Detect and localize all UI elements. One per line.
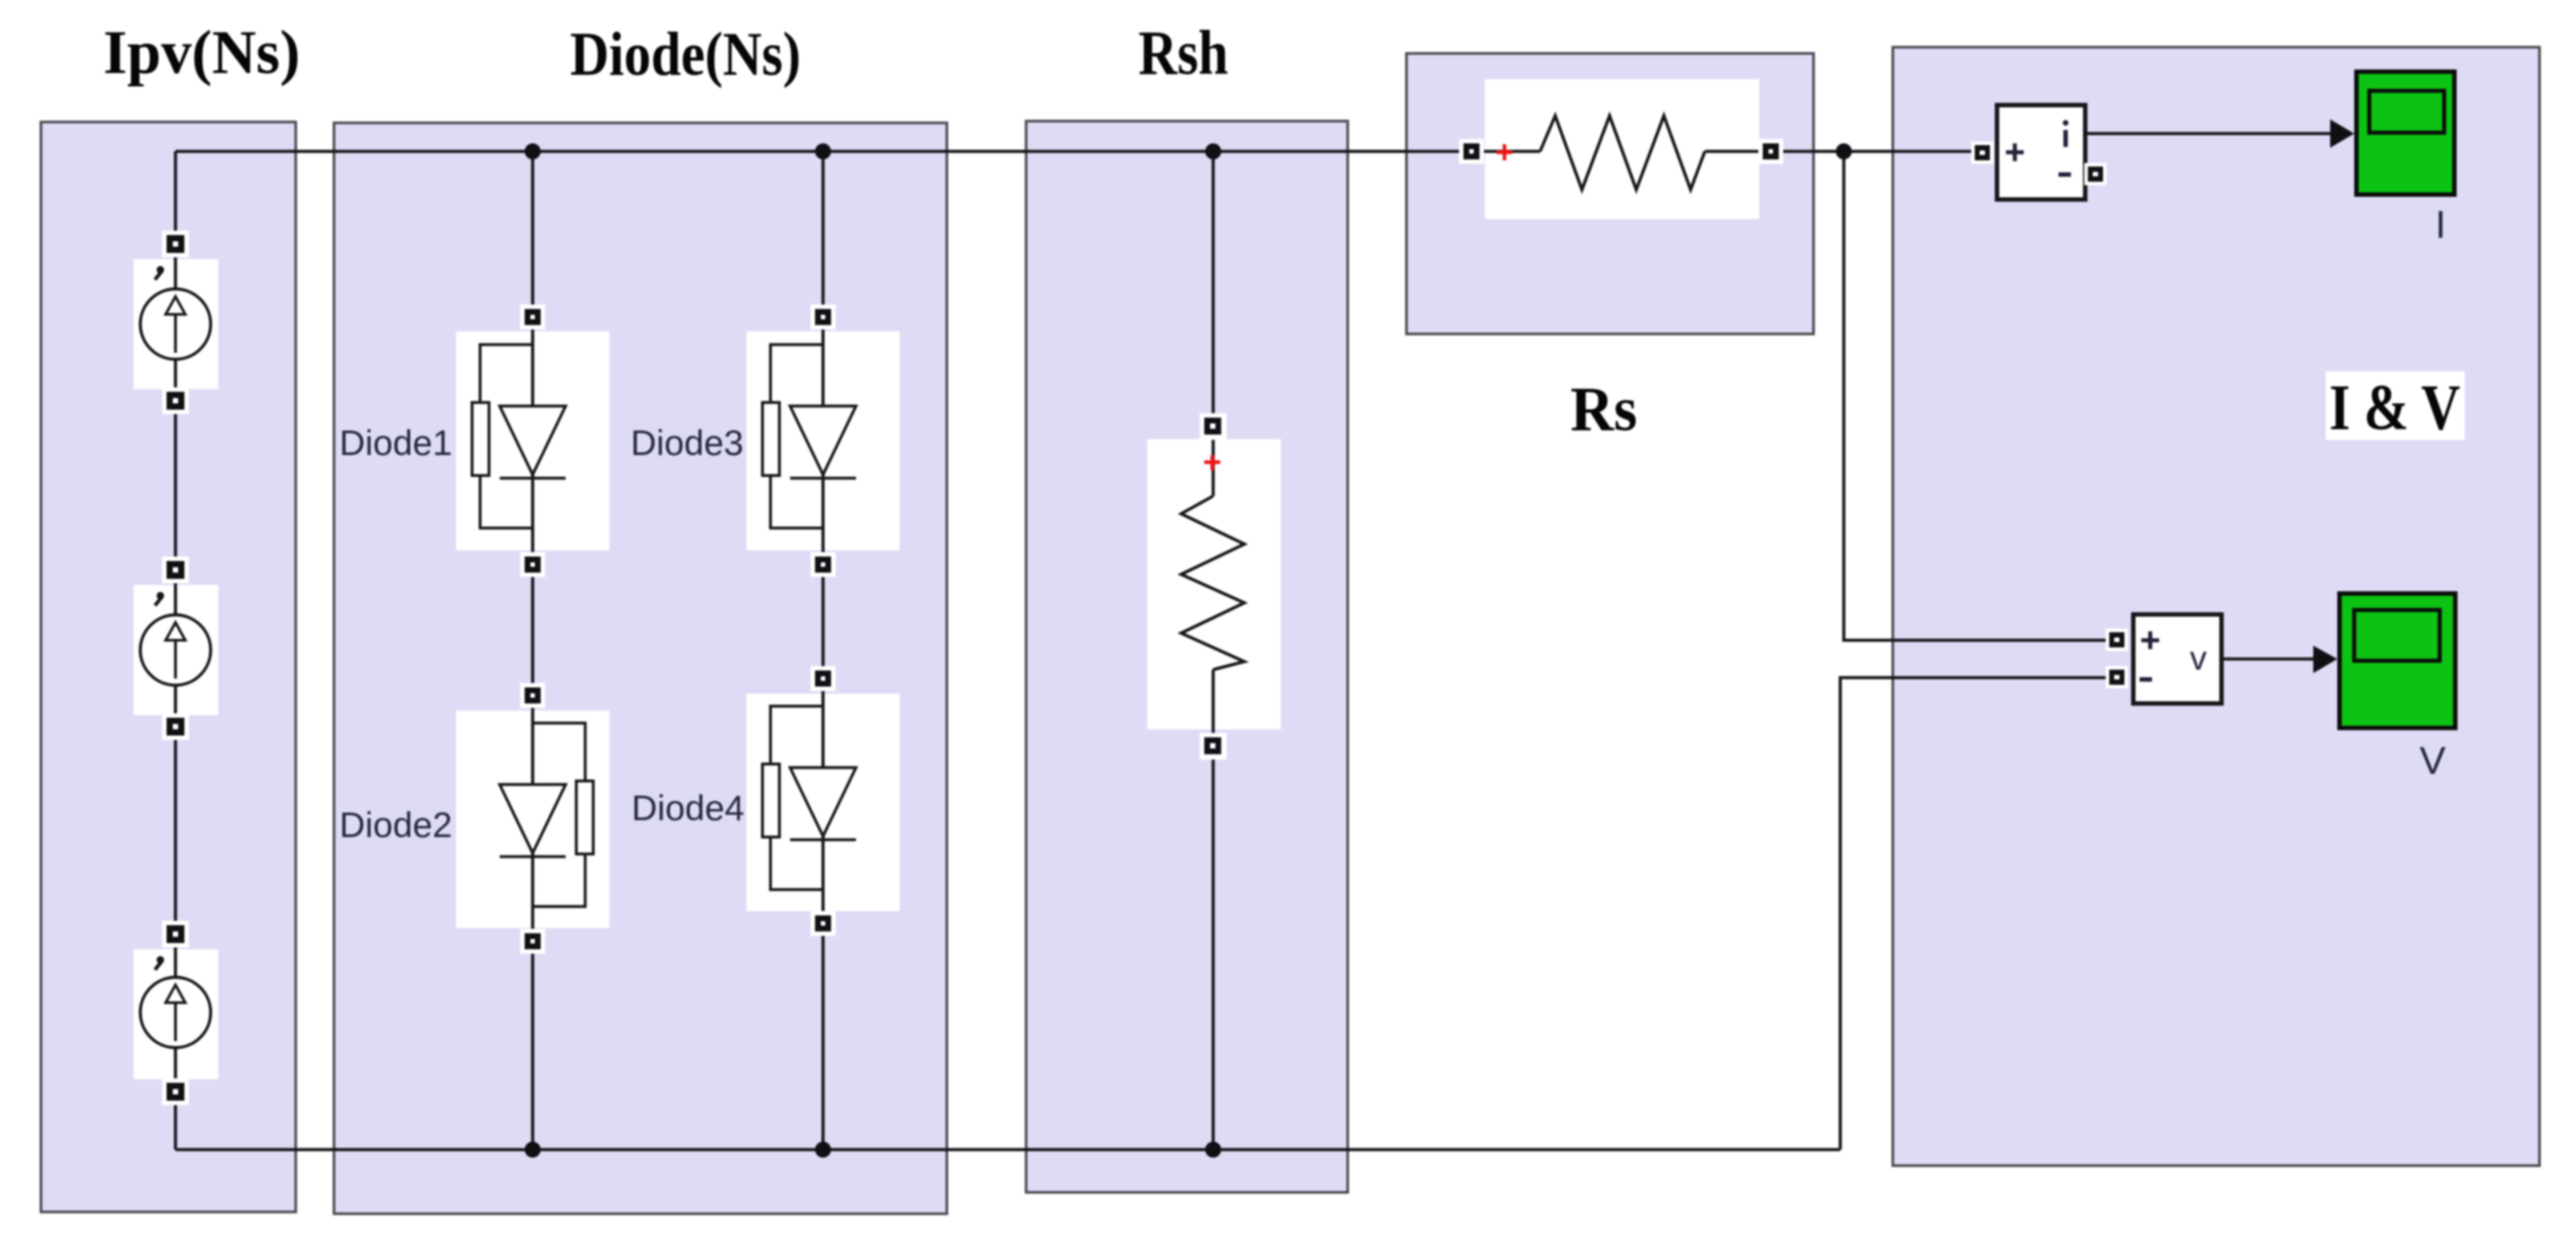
subsystem box Rsh: [1026, 121, 1348, 1192]
white patch Rsh resistor: [1147, 439, 1281, 729]
diode Diode1: [472, 345, 566, 528]
svg-text:Ipv(Ns): Ipv(Ns): [103, 19, 300, 87]
white patch current source 2: [134, 585, 218, 715]
wire bottom bus: [175, 1148, 1840, 1151]
svg-text:Diode2: Diode2: [339, 806, 452, 845]
port current sensor minus: [2084, 163, 2107, 185]
wire Rs left lead: [1479, 150, 1540, 153]
junction node bottom diode2: [815, 1142, 831, 1158]
port I1 bottom: [162, 387, 189, 414]
junction node after Rs: [1836, 143, 1852, 159]
port I3 bottom: [162, 1078, 189, 1105]
port I3 top: [162, 921, 189, 947]
port Rs right: [1758, 139, 1783, 164]
current source I1: [141, 266, 211, 360]
scope I: [2357, 72, 2455, 195]
diode Diode4: [762, 706, 856, 890]
white patch current source 3: [134, 949, 218, 1079]
port Diode1 bottom: [520, 552, 545, 577]
port I1 top: [162, 231, 189, 257]
wire Rs right lead: [1705, 150, 1764, 153]
white patch Diode4: [746, 694, 900, 911]
arrowhead into scope I: [2330, 119, 2354, 148]
svg-text:Diode3: Diode3: [631, 424, 744, 463]
port Diode1 top: [520, 305, 545, 329]
port voltage sensor minus: [2106, 666, 2128, 688]
red plus Rs: [1496, 144, 1512, 160]
white patch current source 1: [134, 259, 218, 389]
port current sensor plus: [1971, 142, 1993, 164]
subsystem box I & V measurement: [1893, 47, 2539, 1166]
svg-text:Rsh: Rsh: [1138, 19, 1228, 88]
red plus Rsh: [1204, 455, 1220, 470]
junction node bottom diode1: [525, 1142, 541, 1158]
signal wire voltage sensor to scope V: [2221, 657, 2315, 661]
subsystem box Ipv(Ns): [41, 122, 296, 1212]
wire branch to voltage sensor plus: [1844, 151, 2110, 640]
port Diode4 bottom: [811, 911, 836, 936]
svg-text:Diode4: Diode4: [632, 789, 745, 828]
port I2 bottom: [162, 713, 189, 740]
resistor Rs zigzag: [1540, 116, 1705, 190]
subsystem box Diode(Ns): [334, 123, 947, 1214]
junction node top diode2: [815, 143, 831, 159]
white patch Diode2: [456, 711, 609, 928]
svg-text:I & V: I & V: [2329, 371, 2460, 443]
scope V: [2340, 594, 2456, 728]
port Rs left: [1459, 139, 1484, 164]
subsystem box Rs: [1406, 53, 1814, 334]
port Diode3 top: [811, 305, 836, 329]
white patch Diode1: [456, 331, 609, 550]
wire Rsh column top: [1211, 151, 1215, 496]
wire top bus: [175, 150, 1464, 153]
voltage sensor U2: [2133, 614, 2221, 703]
white patch Diode3: [746, 331, 900, 550]
junction node top Rsh: [1205, 143, 1221, 159]
svg-text:V: V: [2419, 739, 2446, 783]
current source I3: [141, 956, 211, 1048]
port Rsh top: [1200, 413, 1227, 440]
svg-text:v: v: [2190, 640, 2207, 678]
svg-text:Diode1: Diode1: [339, 424, 452, 463]
current sensor U1: [1997, 105, 2085, 199]
wire Rsh column bottom: [1211, 670, 1215, 1150]
port Diode2 bottom: [520, 929, 545, 954]
svg-text:Diode(Ns): Diode(Ns): [570, 20, 801, 89]
svg-text:I: I: [2435, 203, 2446, 247]
port Diode2 top: [520, 683, 545, 708]
diode Diode3: [762, 345, 856, 528]
white patch Rs resistor: [1485, 79, 1759, 219]
wire Rs output to current sensor: [1778, 150, 1976, 153]
port Rsh bottom: [1200, 733, 1227, 760]
signal wire current sensor to scope I: [2085, 132, 2332, 135]
wire diode column 1: [531, 151, 534, 1150]
junction node bottom Rsh: [1205, 1142, 1221, 1158]
port Diode4 top: [811, 666, 836, 691]
port I2 top: [162, 557, 189, 583]
resistor Rsh zigzag: [1181, 496, 1244, 670]
svg-text:Rs: Rs: [1570, 375, 1637, 444]
wire branch to voltage sensor minus: [1840, 678, 2110, 1150]
port voltage sensor plus: [2106, 629, 2128, 651]
port Diode3 bottom: [811, 552, 836, 577]
diode Diode2: [500, 723, 593, 907]
current source I2: [141, 592, 211, 686]
junction node top diode1: [525, 143, 541, 159]
arrowhead into scope V: [2313, 646, 2337, 673]
label I & V: [2326, 371, 2465, 440]
wire diode column 2: [821, 151, 825, 1150]
wire Ipv column: [174, 151, 177, 1150]
